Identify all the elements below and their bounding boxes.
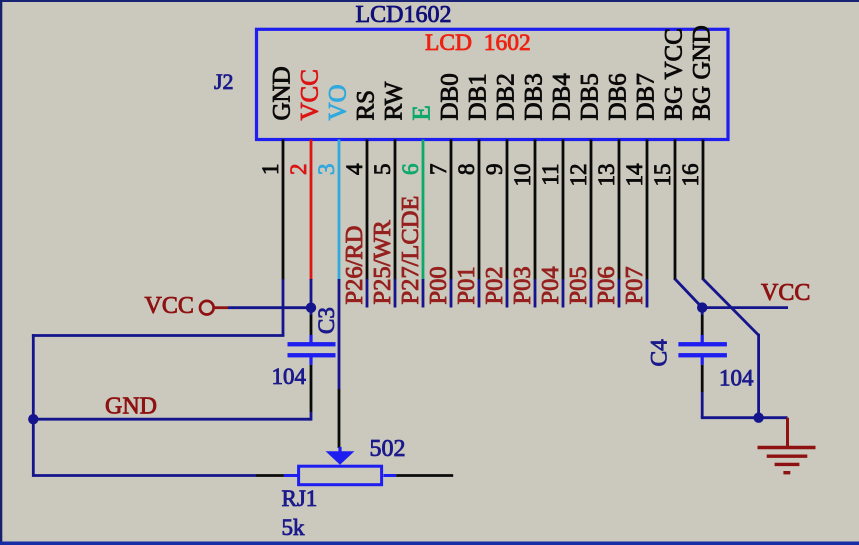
svg-text:J2: J2 [214, 69, 234, 94]
svg-text:2: 2 [286, 164, 311, 176]
svg-text:GND: GND [105, 394, 157, 420]
svg-text:7: 7 [426, 164, 451, 176]
svg-text:9: 9 [482, 164, 507, 176]
svg-text:VO: VO [325, 84, 352, 120]
svg-text:P04: P04 [537, 266, 564, 304]
potentiometer RJ1 left blue stub [284, 474, 299, 477]
svg-text:502: 502 [370, 436, 406, 462]
svg-text:P00: P00 [425, 266, 452, 304]
svg-text:VCC: VCC [761, 280, 810, 306]
wire stub pin 10 to net label [534, 279, 537, 308]
pin 1 line (GND) [282, 140, 285, 281]
svg-text:4: 4 [342, 163, 367, 175]
capacitor C4 bottom blue stub [701, 357, 704, 365]
wire stub pin 12 to net label [590, 279, 593, 308]
svg-text:DB6: DB6 [605, 73, 632, 120]
pin 5 line (RW) [394, 140, 397, 281]
svg-text:1: 1 [258, 164, 283, 176]
potentiometer RJ1 left pin [256, 474, 284, 477]
ground symbol bar 4 [783, 471, 790, 474]
wire GND net horizontal to left rail [32, 334, 285, 337]
pin 8 line (DB1) [478, 140, 481, 281]
capacitor C3 top lead [310, 315, 313, 335]
wire VCC terminal stub (dark red) [214, 306, 228, 309]
svg-text:LCD 1602: LCD 1602 [425, 30, 531, 56]
svg-text:LCD1602: LCD1602 [356, 2, 452, 28]
pin 7 line (DB0) [450, 140, 453, 281]
ground symbol bar 3 [775, 463, 800, 466]
svg-text:P03: P03 [509, 266, 536, 304]
svg-text:5k: 5k [282, 515, 306, 540]
svg-text:DB0: DB0 [437, 73, 464, 120]
svg-text:5: 5 [370, 164, 395, 176]
pin 13 line (DB6) [618, 140, 621, 281]
svg-text:BG GND: BG GND [689, 25, 716, 120]
wire GND rail bottom horizontal to RJ1 [33, 474, 256, 477]
wire stub pin 8 to net label [478, 279, 481, 308]
svg-text:3: 3 [314, 164, 339, 176]
wire pin 16 (BG GND) diagonal [703, 279, 759, 335]
pin 4 line (RS) [366, 140, 369, 281]
svg-text:DB3: DB3 [521, 73, 548, 120]
ground symbol bar 2 [767, 455, 808, 458]
wire stub pin 6 to net label [422, 279, 425, 308]
pin 9 line (DB2) [506, 140, 509, 281]
junction node GND rail / GND label wire [28, 414, 38, 424]
svg-text:P02: P02 [481, 266, 508, 304]
junction node VCC / C3 top [306, 303, 316, 313]
frame top [0, 0, 859, 2]
svg-text:RW: RW [381, 81, 408, 120]
capacitor C4 lead wire to ground line [701, 392, 704, 418]
pin 14 line (DB7) [646, 140, 649, 281]
wire GND label horizontal to C3 bottom [33, 418, 311, 421]
wire VCC terminal to pin 2 node [228, 306, 311, 309]
wire stub pin 14 to net label [646, 279, 649, 308]
capacitor C3 bottom plate [288, 353, 336, 357]
svg-text:P26/RD: P26/RD [341, 226, 368, 305]
svg-text:BG VCC: BG VCC [661, 28, 688, 120]
pin 3 line (VO) [338, 140, 341, 281]
IC body LCD1602 (J2) [257, 29, 729, 139]
svg-text:P27/LCDE: P27/LCDE [397, 196, 424, 305]
svg-text:P06: P06 [593, 266, 620, 304]
svg-text:DB4: DB4 [549, 73, 576, 121]
wire stub pin 13 to net label [618, 279, 621, 308]
capacitor C3 bottom blue stub [309, 357, 312, 365]
svg-text:P07: P07 [621, 266, 648, 304]
svg-text:RS: RS [353, 90, 380, 121]
capacitor C4 bottom lead [701, 365, 704, 392]
svg-text:DB5: DB5 [577, 73, 604, 120]
pin 16 line (BG GND) [702, 140, 705, 281]
svg-text:6: 6 [398, 164, 423, 176]
svg-text:C3: C3 [314, 307, 339, 334]
svg-text:15: 15 [650, 164, 675, 187]
svg-text:14: 14 [622, 163, 647, 187]
svg-text:P05: P05 [565, 266, 592, 304]
capacitor C4 top plate [678, 342, 727, 346]
terminal VCC open circle [200, 301, 214, 315]
wire C4 top node [701, 308, 704, 315]
wire GND net left rail vertical [32, 334, 35, 477]
capacitor C4 top blue stub [701, 335, 704, 343]
capacitor C3 top blue stub [309, 335, 312, 343]
wire BG GND vertical down [757, 334, 760, 418]
svg-text:104: 104 [272, 364, 307, 389]
svg-text:C4: C4 [647, 339, 673, 367]
svg-text:P01: P01 [453, 266, 480, 304]
ground symbol bar 1 [758, 446, 816, 449]
wire pin 15 (BG VCC) diagonal [675, 279, 702, 308]
svg-text:DB1: DB1 [465, 73, 492, 120]
wire pin 1 (GND net) vertical below pin [282, 279, 285, 336]
wire pin 2 (VCC net) vertical below pin [310, 279, 313, 315]
capacitor C4 top lead [701, 315, 704, 335]
svg-text:P25/WR: P25/WR [369, 219, 396, 304]
svg-text:11: 11 [538, 164, 563, 186]
capacitor C3 bottom lead [310, 365, 313, 412]
frame bottom [0, 542, 859, 545]
svg-text:8: 8 [454, 164, 479, 176]
capacitor C3 top plate [288, 342, 336, 346]
svg-text:DB2: DB2 [493, 73, 520, 120]
wire stub pin 11 to net label [562, 279, 565, 308]
wire VCC net horizontal (right) [702, 306, 788, 309]
ground symbol stem [786, 418, 789, 448]
pin 10 line (DB3) [534, 140, 537, 281]
pin 2 line (VCC) [310, 140, 313, 281]
wire pin 3 (VO net) vertical to wiper [338, 279, 341, 389]
svg-text:13: 13 [594, 164, 619, 187]
junction node BG GND / C4 / ground [753, 413, 763, 423]
potentiometer RJ1 body [299, 466, 382, 485]
potentiometer RJ1 wiper stem [338, 447, 341, 453]
wire stub pin 5 to net label [394, 279, 397, 308]
potentiometer RJ1 wiper arrow [326, 451, 355, 465]
capacitor C4 bottom plate [678, 353, 727, 357]
pin 6 line (E) [422, 140, 425, 281]
pin 11 line (DB4) [562, 140, 565, 281]
wire stub pin 4 to net label [366, 279, 369, 308]
svg-text:VCC: VCC [145, 293, 194, 319]
frame left [0, 0, 2, 545]
pin 12 line (DB5) [590, 140, 593, 281]
capacitor C3 lead wire to GND line [310, 412, 313, 421]
svg-text:RJ1: RJ1 [282, 486, 318, 511]
svg-text:12: 12 [566, 164, 591, 187]
svg-text:10: 10 [510, 164, 535, 187]
svg-text:16: 16 [678, 164, 703, 187]
potentiometer RJ1 right pin [396, 474, 453, 477]
potentiometer RJ1 wiper pin [338, 389, 341, 448]
wire stub pin 9 to net label [506, 279, 509, 308]
svg-text:104: 104 [719, 366, 754, 391]
potentiometer RJ1 right blue stub [383, 474, 396, 477]
pin 15 line (BG VCC) [674, 140, 677, 281]
wire stub pin 7 to net label [450, 279, 453, 308]
junction node BG VCC / C4 / VCC [697, 302, 707, 312]
svg-text:E: E [409, 105, 436, 120]
svg-text:VCC: VCC [297, 69, 324, 120]
wire ground horizontal [701, 416, 788, 419]
svg-text:DB7: DB7 [633, 73, 660, 120]
svg-text:GND: GND [269, 66, 296, 120]
